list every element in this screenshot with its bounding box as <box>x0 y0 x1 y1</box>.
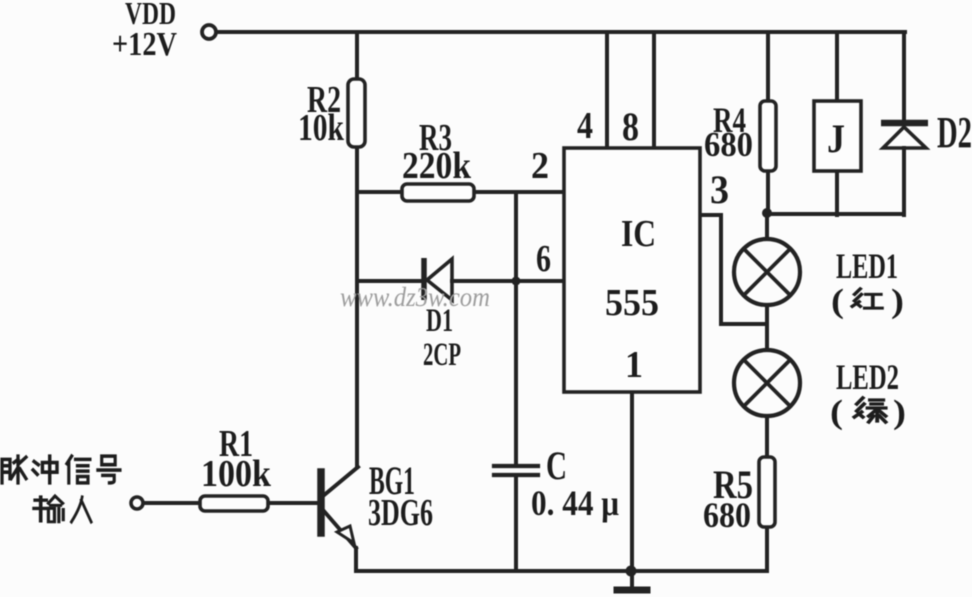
svg-text:IC: IC <box>621 213 656 255</box>
svg-text:(: ( <box>830 394 843 431</box>
svg-text:www.dz3w.com: www.dz3w.com <box>340 282 490 312</box>
svg-text:D2: D2 <box>937 108 972 157</box>
svg-text:680: 680 <box>703 495 751 535</box>
svg-text:+12V: +12V <box>112 26 177 63</box>
svg-text:10k: 10k <box>298 107 345 149</box>
svg-text:2: 2 <box>531 145 549 187</box>
svg-text:6: 6 <box>536 238 551 280</box>
svg-text:C: C <box>546 443 567 488</box>
svg-text:4: 4 <box>577 105 593 147</box>
svg-text:): ) <box>891 283 904 320</box>
svg-text:555: 555 <box>605 282 659 324</box>
svg-text:220k: 220k <box>402 145 472 187</box>
svg-text:8: 8 <box>622 104 639 149</box>
svg-text:LED1: LED1 <box>836 246 898 286</box>
svg-text:1: 1 <box>625 344 643 386</box>
svg-text:100k: 100k <box>201 453 272 495</box>
svg-text:LED2: LED2 <box>836 357 899 397</box>
svg-text:3DG6: 3DG6 <box>368 492 433 534</box>
svg-text:0. 44 μ: 0. 44 μ <box>531 483 619 523</box>
svg-text:680: 680 <box>704 125 753 164</box>
svg-text:J: J <box>827 116 845 161</box>
svg-text:): ) <box>893 394 906 431</box>
svg-text:3: 3 <box>710 167 729 212</box>
svg-text:2CP: 2CP <box>423 337 461 373</box>
svg-text:(: ( <box>831 283 844 320</box>
